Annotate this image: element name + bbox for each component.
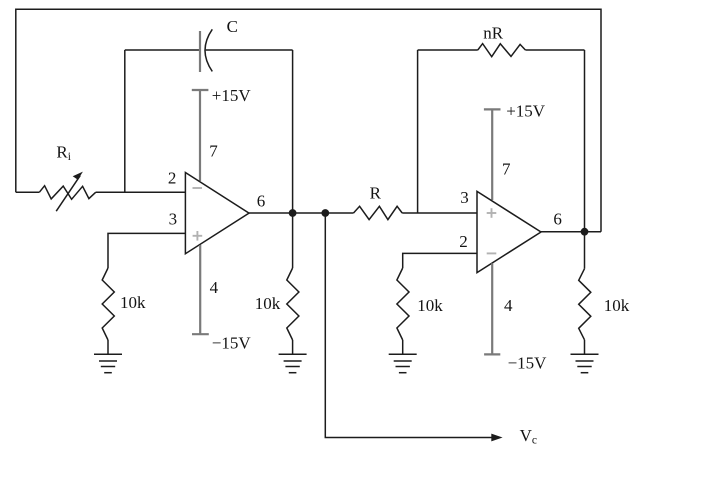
svg-text:10k: 10k — [255, 294, 281, 313]
resistor Ri (variable) zigzag — [39, 186, 95, 200]
svg-text:4: 4 — [504, 296, 513, 315]
svg-text:10k: 10k — [417, 296, 443, 315]
label pin 2 U2 — [459, 232, 468, 251]
-15V supply U1 pin 4 — [192, 245, 209, 334]
wire nR top left segment — [418, 49, 478, 51]
svg-text:−15V: −15V — [508, 353, 548, 372]
label nR — [483, 24, 504, 43]
svg-text:Vc: Vc — [520, 426, 537, 447]
label pin 3 U1 — [169, 210, 178, 229]
label pin 3 U2 — [460, 188, 469, 207]
label pin 2 U1 — [168, 169, 177, 188]
wire output node to 10k #2 — [292, 213, 294, 268]
wire capacitor loop left leg — [124, 50, 126, 192]
wire pin 2 U2 to 10k resistor — [403, 253, 477, 268]
label pin 4 U2 — [504, 296, 513, 315]
label Ri — [56, 143, 71, 164]
resistor 10k #3 (U2 pin2 to ground) — [397, 268, 409, 340]
wire capacitor loop right leg down to output node — [292, 50, 294, 213]
label 10k #4 — [604, 296, 630, 315]
wire 10k #1 to ground — [107, 340, 109, 354]
op-amp U2 minus input mark — [487, 252, 497, 254]
svg-text:2: 2 — [459, 232, 468, 251]
svg-text:2: 2 — [168, 169, 177, 188]
svg-text:7: 7 — [502, 159, 511, 178]
resistor nR zigzag — [478, 44, 526, 57]
-15V supply U2 pin 4 — [484, 263, 500, 354]
wire U2 output node to 10k #4 — [584, 232, 586, 269]
wire from left edge to variable resistor Ri — [16, 191, 40, 193]
op-amp U1 minus input mark — [193, 187, 203, 189]
label -15V right — [508, 353, 548, 372]
svg-text:C: C — [227, 17, 238, 36]
label pin 7 U2 — [502, 159, 511, 178]
op-amp U2 triangle — [477, 191, 541, 272]
ground #4 — [571, 354, 599, 372]
node dot output U1 — [289, 209, 297, 217]
svg-text:nR: nR — [483, 24, 504, 43]
svg-text:−15V: −15V — [212, 334, 252, 353]
svg-text:7: 7 — [209, 142, 218, 161]
wire nR top right segment — [525, 49, 584, 51]
svg-text:+15V: +15V — [506, 102, 546, 121]
svg-text:3: 3 — [169, 210, 178, 229]
label pin 7 U1 — [209, 142, 218, 161]
label +15V left — [212, 86, 252, 105]
capacitor C right curved plate — [205, 29, 212, 71]
op-amp U2 plus input mark — [487, 208, 497, 218]
wire nR loop right leg down to output node — [584, 50, 586, 232]
label pin 6 U2 — [553, 209, 562, 228]
node dot U2 output — [581, 228, 589, 236]
arrow of variable resistor Ri — [56, 172, 83, 212]
resistor R zigzag — [354, 206, 403, 219]
+15V supply bar U2 pin 7 — [484, 109, 501, 200]
svg-text:10k: 10k — [120, 293, 146, 312]
op-amp U1 plus input mark — [193, 231, 203, 241]
label Vc — [520, 426, 537, 447]
svg-text:6: 6 — [257, 191, 266, 210]
label 10k #3 — [417, 296, 443, 315]
wire nR loop left leg — [417, 50, 419, 213]
svg-text:Ri: Ri — [56, 143, 71, 164]
svg-text:4: 4 — [210, 278, 219, 297]
ground #1 — [94, 354, 122, 372]
wire R to U2 pin 3 — [402, 212, 477, 214]
op-amp U1 triangle — [185, 173, 249, 254]
wire capacitor top right segment — [206, 49, 293, 51]
label +15V right — [506, 102, 546, 121]
resistor 10k #4 (U2 output to ground) — [579, 269, 591, 340]
wire Ri to opamp U1 pin 2 — [96, 191, 186, 193]
node dot Vc tap — [321, 209, 329, 217]
wire 10k #4 to ground — [584, 340, 586, 355]
ground #3 — [389, 354, 417, 372]
wire capacitor top left segment — [125, 49, 199, 51]
svg-text:+15V: +15V — [212, 86, 252, 105]
wire U2 output to outer loop — [541, 231, 601, 233]
capacitor C left plate — [199, 31, 201, 72]
arrowhead Vc — [491, 434, 502, 442]
wire Vc tap down and right — [325, 213, 494, 438]
resistor 10k (U1 pin3 to ground) — [102, 268, 114, 340]
label 10k #2 — [255, 294, 281, 313]
wire 10k #3 to ground — [402, 340, 404, 354]
label -15V left — [212, 334, 252, 353]
label 10k #1 — [120, 293, 146, 312]
wire pin 3 U1 to 10k resistor — [108, 233, 185, 268]
svg-text:R: R — [370, 183, 382, 202]
svg-text:6: 6 — [553, 209, 562, 228]
resistor 10k #2 (U1 output to ground) — [287, 268, 299, 340]
wire 10k #2 to ground — [292, 340, 294, 354]
label R — [370, 183, 382, 202]
svg-text:3: 3 — [460, 188, 469, 207]
wire outer feedback loop: right opamp output up, across top, down left side — [16, 9, 601, 232]
wire U1 output to resistor R — [249, 212, 354, 214]
label C — [227, 17, 238, 36]
label pin 6 U1 — [257, 191, 266, 210]
label pin 4 U1 — [210, 278, 219, 297]
svg-text:10k: 10k — [604, 296, 630, 315]
ground #2 — [279, 354, 307, 372]
+15V supply bar U1 pin 7 — [192, 90, 209, 181]
